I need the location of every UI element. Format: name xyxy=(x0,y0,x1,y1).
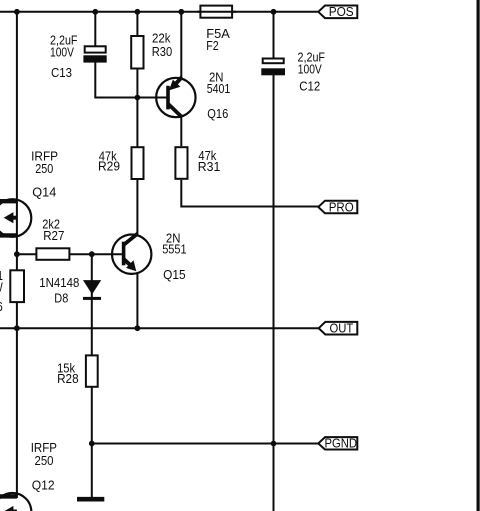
svg-text:R29: R29 xyxy=(98,160,120,174)
svg-text:R30: R30 xyxy=(152,45,173,59)
svg-text:5401: 5401 xyxy=(207,82,231,96)
wire PGND rail xyxy=(92,443,319,445)
node top rail / C12 xyxy=(271,9,277,15)
svg-text:R27: R27 xyxy=(43,229,64,243)
svg-text:PGND: PGND xyxy=(325,436,358,450)
MOSFET Q14 (IRFP250) xyxy=(0,199,31,237)
svg-text:D8: D8 xyxy=(54,292,68,306)
resistor R27 xyxy=(36,248,69,259)
wire OUT rail xyxy=(0,327,319,329)
svg-text:R26: R26 xyxy=(0,300,3,314)
node Q16 base / R30-R29 xyxy=(135,95,141,101)
port flag POS xyxy=(318,5,357,19)
svg-text:POS: POS xyxy=(329,5,354,19)
svg-text:Q16: Q16 xyxy=(207,107,228,121)
svg-text:100V: 100V xyxy=(50,46,74,60)
svg-text:Q14: Q14 xyxy=(32,185,56,199)
wire D8 / R28 vertical x=91.8 xyxy=(91,254,93,499)
wire R27 row / Q15 base xyxy=(17,253,122,255)
svg-text:1N4148: 1N4148 xyxy=(39,276,79,290)
wire C12 bottom long vertical xyxy=(273,75,275,511)
wire R30-R29-Q15 vertical x=137.4 xyxy=(136,12,138,235)
wire R31 to PRO xyxy=(181,180,318,207)
wire Q15 emitter to OUT xyxy=(136,273,138,329)
capacitor C13 xyxy=(83,46,106,62)
node R27 left xyxy=(14,251,20,257)
wire vertical left rail x=16.9 xyxy=(16,12,18,498)
svg-text:C13: C13 xyxy=(51,66,72,80)
resistor R30 xyxy=(131,36,143,69)
svg-text:R28: R28 xyxy=(57,372,79,386)
capacitor C12 xyxy=(261,59,285,76)
wire Q16 emitter stem xyxy=(180,12,182,79)
transistor Q16 (PNP 2N5401) xyxy=(156,77,195,117)
node PGND / C12 rail xyxy=(271,441,277,447)
diode D8 xyxy=(83,280,101,300)
port flag PRO xyxy=(318,200,357,214)
node D8 top xyxy=(89,251,95,257)
resistor R28 xyxy=(86,355,98,386)
wire through fuse F2 xyxy=(197,11,236,13)
resistor R29 xyxy=(132,147,144,179)
node top rail / C13 xyxy=(92,9,98,15)
transistor Q15 (NPN 2N5551) xyxy=(112,234,151,274)
port flag OUT xyxy=(319,321,358,335)
wire C13 top stem xyxy=(94,12,96,47)
fuse F2 xyxy=(200,6,232,18)
node top rail / R30 xyxy=(135,9,141,15)
wire C12 vertical x=273.5 xyxy=(273,12,275,59)
wire C13 bottom stem to Q16 base xyxy=(95,62,166,98)
node PGND / R28 xyxy=(89,441,95,447)
svg-text:250: 250 xyxy=(35,454,54,468)
svg-text:5W: 5W xyxy=(0,281,3,295)
svg-text:OUT: OUT xyxy=(330,321,354,335)
svg-text:Q15: Q15 xyxy=(163,268,186,282)
svg-text:R31: R31 xyxy=(198,160,221,174)
border frame right xyxy=(477,0,480,511)
resistor R26 (clipped at left edge) xyxy=(10,270,24,302)
wire top rail POS xyxy=(0,11,319,13)
svg-text:F2: F2 xyxy=(206,39,218,53)
svg-text:PRO: PRO xyxy=(329,200,354,214)
port flag PGND xyxy=(318,436,357,450)
ground xyxy=(77,497,104,502)
node OUT / left rail xyxy=(14,325,20,331)
node top rail / Q16 emitter xyxy=(178,9,184,15)
svg-text:C12: C12 xyxy=(299,79,320,93)
svg-text:22k: 22k xyxy=(152,32,171,46)
svg-text:100V: 100V xyxy=(298,62,322,76)
resistor R31 xyxy=(175,147,187,179)
node OUT / Q15 emitter xyxy=(135,325,141,331)
svg-text:250: 250 xyxy=(35,162,53,176)
node top rail / left rail xyxy=(14,9,20,15)
svg-text:IRFP: IRFP xyxy=(31,441,57,455)
svg-text:Q12: Q12 xyxy=(32,478,55,492)
wire Q16 collector to R31 xyxy=(180,116,182,146)
MOSFET Q12 (IRFP250, clipped at bottom) xyxy=(0,493,31,511)
svg-text:5551: 5551 xyxy=(162,243,187,257)
